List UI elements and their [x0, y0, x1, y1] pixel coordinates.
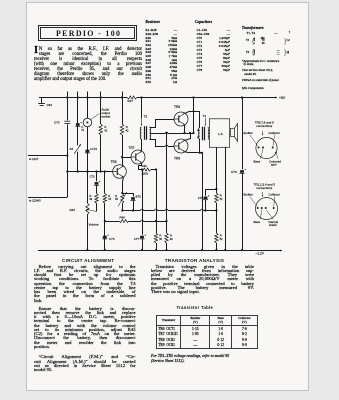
capacitor C70 — [64, 120, 70, 122]
svg-text:C70: C70 — [54, 120, 60, 124]
wire audio socket branch — [87, 98, 89, 119]
wire T4 primary bottom to TR9 emitter rail — [199, 139, 201, 153]
transistor TR6 — [113, 165, 127, 179]
svg-text:C75: C75 — [136, 195, 142, 199]
wire TR8 collector down to centre line — [184, 125, 186, 133]
resistor R47 (in supply rail) — [127, 96, 137, 99]
svg-text:R48: R48 — [120, 216, 126, 220]
svg-text:44: 44 — [108, 197, 111, 201]
resistor R43 — [96, 185, 98, 193]
svg-text:Volume: Volume — [89, 223, 99, 227]
svg-text:L.S.: L.S. — [218, 132, 224, 136]
svg-text:C76: C76 — [231, 170, 237, 174]
wire link to sheet 1234/5 — [28, 197, 67, 199]
wire TR6 collector to TR7 base — [122, 157, 131, 159]
component value tables — [145, 20, 160, 24]
wire T3 secondary bottom to TR9 base — [150, 140, 156, 144]
capacitor C71 — [76, 123, 80, 126]
svg-text:connections: connections — [256, 186, 273, 190]
loudspeaker symbol — [231, 128, 235, 136]
svg-text:to 1227: to 1227 — [29, 157, 39, 161]
svg-text:T4: T4 — [203, 114, 207, 118]
loudspeaker LS enclosure — [209, 119, 229, 148]
svg-text:Emitter: Emitter — [244, 193, 253, 197]
wire TR7 emitter to R46 — [139, 163, 142, 170]
wire R45 to bottom junction — [122, 203, 124, 210]
wire supply rail to +9V arrow — [137, 97, 277, 99]
svg-text:connections: connections — [256, 124, 273, 128]
svg-text:S4: S4 — [70, 147, 74, 151]
svg-text:42: 42 — [126, 128, 130, 132]
bottom text sections — [62, 258, 110, 263]
wire TR6 collector to R42/TR7 base — [122, 165, 124, 166]
resistor R44 branch — [104, 172, 106, 194]
svg-text:TR8: TR8 — [174, 105, 180, 109]
transistor TR8 — [174, 112, 188, 126]
svg-text:spot: spot — [271, 163, 277, 167]
wire bottom rail -1.2V — [38, 250, 122, 252]
capacitor C62 (stub to RF section) — [41, 98, 43, 104]
svg-text:C72: C72 — [92, 147, 98, 151]
capacitor C77 branch — [142, 170, 144, 235]
wire R42 branch — [122, 98, 124, 125]
wire emitter rail y=210.5 — [122, 210, 140, 212]
capacitor C78 — [206, 190, 217, 196]
svg-text:shield: shield — [269, 223, 277, 227]
wire R43 to volume wiper — [96, 203, 98, 211]
wire C71/S4 branch — [77, 98, 79, 146]
svg-text:R46: R46 — [142, 164, 148, 168]
capacitor C75 — [133, 193, 135, 197]
wire speaker taps down — [216, 147, 218, 193]
resistor R48 — [119, 220, 129, 223]
svg-text:to 1234/5: to 1234/5 — [29, 199, 41, 203]
audio output socket J1 — [83, 118, 92, 127]
svg-text:52: 52 — [220, 237, 223, 241]
wire TR6 base rail — [67, 171, 112, 173]
resistor R46 — [141, 168, 151, 171]
capacitor C73 — [96, 172, 98, 182]
svg-text:TR7: TR7 — [129, 146, 135, 150]
potentiometer R40 volume — [86, 203, 89, 215]
introduction paragraph — [34, 47, 142, 82]
svg-text:50: 50 — [159, 237, 162, 241]
svg-text:C74: C74 — [109, 237, 115, 241]
wire supply to T3 via arrow — [141, 98, 143, 119]
transistor TR9 — [174, 139, 188, 153]
wire TR9 emitter to right — [185, 152, 203, 250]
wire TR8 emitter to link — [185, 112, 194, 114]
svg-text:51: 51 — [220, 197, 223, 201]
svg-text:41: 41 — [104, 128, 108, 132]
wire TR6 emitter down to R45 — [123, 177, 124, 193]
wire R48 rail y=221 — [105, 221, 119, 223]
resistor R41 — [99, 124, 102, 135]
capacitor C76 branch — [242, 98, 244, 170]
svg-text:R40: R40 — [69, 208, 75, 212]
svg-text:+9V: +9V — [279, 96, 286, 100]
svg-text:Collector: Collector — [269, 193, 280, 197]
svg-text:Base: Base — [254, 220, 261, 224]
svg-text:TR9: TR9 — [174, 157, 180, 161]
wire T3 centre tap — [150, 133, 154, 135]
svg-text:45: 45 — [115, 197, 118, 201]
wire TR7 collector to T3 primary — [141, 139, 143, 151]
wire top +9V supply rail — [39, 97, 127, 99]
svg-text:49: 49 — [170, 237, 173, 241]
resistor R51 — [215, 193, 218, 203]
svg-text:71: 71 — [81, 128, 84, 132]
wire R45 top to C75 — [122, 193, 133, 195]
wire T3 secondary top to TR8 base — [150, 120, 175, 128]
preset R45 — [121, 194, 124, 204]
svg-text:TR6: TR6 — [111, 160, 117, 164]
wire link to T4 primary top — [194, 112, 200, 128]
wire T3 centre tap to link — [154, 133, 166, 135]
resistor R52 — [215, 233, 218, 243]
svg-text:Collector: Collector — [269, 131, 280, 135]
svg-text:C73: C73 — [90, 175, 95, 179]
title box PERDIO - 100 — [38, 25, 138, 42]
resistor R42 — [120, 124, 123, 135]
svg-text:socket: socket — [102, 115, 111, 119]
svg-text:C62: C62 — [47, 103, 53, 107]
wire stubs to RF section (cut off) — [67, 92, 69, 98]
switch S4 — [74, 144, 81, 154]
svg-text:−1.2V: −1.2V — [256, 252, 265, 256]
svg-text:T3: T3 — [144, 114, 148, 118]
capacitor C72 — [86, 150, 90, 153]
resistor R50 branch — [156, 170, 158, 234]
svg-text:R47: R47 — [128, 99, 134, 103]
svg-text:C77: C77 — [134, 237, 140, 241]
svg-text:Base: Base — [254, 159, 261, 163]
transistor TR7 — [131, 150, 145, 164]
svg-text:Emitter: Emitter — [244, 131, 253, 135]
svg-text:C78: C78 — [198, 196, 204, 200]
wire T4 centre-tap battery link — [193, 98, 195, 134]
wire R41 branch — [100, 98, 102, 125]
wire TR9 collector up to centre line — [185, 133, 191, 140]
svg-text:43: 43 — [89, 197, 92, 201]
wire C70 branch — [67, 98, 69, 121]
wire link to sheet 1227 — [28, 155, 67, 157]
resistor R49 branch — [166, 133, 168, 233]
capacitor C74 — [103, 236, 107, 239]
